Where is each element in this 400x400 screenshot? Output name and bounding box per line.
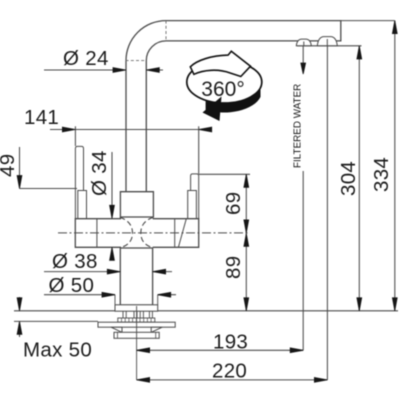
wire extension pipe top to 334 bbox=[341, 20, 395, 22]
ext 69 top bbox=[199, 173, 250, 175]
rotation white arrow bbox=[190, 51, 250, 76]
base column bbox=[120, 248, 152, 305]
counter bottom line left bbox=[14, 320, 98, 322]
arrow D38 left bbox=[107, 269, 120, 274]
arrow 69 up bbox=[244, 174, 249, 187]
base plate bbox=[115, 305, 158, 311]
left valve divider bbox=[96, 219, 98, 248]
rotation arrowhead black bbox=[203, 97, 222, 122]
flange wedge right bbox=[151, 327, 162, 332]
wire extension main outlet center bbox=[326, 46, 328, 380]
svg-text:220: 220 bbox=[212, 360, 247, 383]
rotation band black bbox=[206, 87, 261, 112]
360 symbol bbox=[187, 51, 262, 121]
wire extension filtered outlet lower bbox=[302, 171, 304, 350]
ext 141 right bbox=[198, 126, 200, 174]
dim line D34 vertical bbox=[111, 152, 113, 218]
dim line D38 bbox=[44, 271, 120, 273]
right lever bar bbox=[191, 174, 199, 219]
dim line 69 bbox=[245, 174, 247, 233]
valve centerline bbox=[58, 232, 250, 234]
left valve body bbox=[75, 219, 121, 248]
arrow Max50 up bbox=[17, 321, 22, 334]
arrow D50 left bbox=[102, 292, 115, 297]
arrow D34 down bbox=[110, 205, 115, 218]
Y body box bbox=[120, 192, 153, 217]
svg-text:334: 334 bbox=[370, 157, 393, 192]
dim line Max50 bottom bbox=[19, 321, 21, 337]
svg-text:193: 193 bbox=[213, 331, 248, 354]
right valve body bbox=[153, 219, 199, 248]
wire extension outlet bottom horizontal bbox=[297, 45, 362, 47]
waist curve right (dashed) bbox=[141, 217, 153, 248]
right lever collar bbox=[188, 191, 197, 219]
svg-text:49: 49 bbox=[0, 154, 19, 177]
ext 141 left bbox=[74, 126, 76, 146]
arrow 220 right bbox=[314, 378, 327, 383]
faucet centerline extension bbox=[136, 306, 138, 380]
svg-text:FILTERED WATER: FILTERED WATER bbox=[293, 84, 304, 168]
filtered outlet bbox=[296, 39, 311, 46]
rotation top rim ellipse bbox=[187, 61, 262, 103]
arrow 89 up bbox=[244, 233, 249, 246]
main outlet bbox=[317, 37, 337, 46]
svg-text:360°: 360° bbox=[201, 78, 244, 101]
right valve diagonal bbox=[178, 219, 186, 248]
arrow D24 right bbox=[146, 68, 159, 73]
counter top line left bbox=[14, 310, 115, 312]
svg-text:Max 50: Max 50 bbox=[23, 339, 92, 362]
dim line 220 bbox=[137, 379, 328, 381]
arrow 334 up bbox=[392, 21, 397, 34]
spout tube bbox=[126, 21, 341, 192]
arrow 304 down bbox=[357, 298, 362, 311]
svg-text:Ø 34: Ø 34 bbox=[88, 150, 111, 196]
dim line 304 bbox=[358, 46, 360, 311]
svg-text:141: 141 bbox=[24, 106, 59, 129]
dim line 141 bbox=[50, 129, 212, 131]
svg-text:Ø 50: Ø 50 bbox=[49, 274, 95, 297]
arrow 193 left bbox=[137, 348, 150, 353]
arrow 49 down bbox=[17, 176, 22, 189]
arrow 141 right bbox=[199, 127, 212, 132]
shank tubes bbox=[123, 311, 152, 318]
arrow 220 left bbox=[137, 378, 150, 383]
counter top line right bbox=[158, 310, 399, 312]
arrow D34 up bbox=[110, 247, 115, 260]
svg-text:89: 89 bbox=[222, 256, 245, 279]
flange wedge left bbox=[111, 327, 122, 332]
plate extension tick left bbox=[114, 295, 116, 305]
dim line 334 bbox=[394, 21, 396, 311]
arrow 334 down bbox=[392, 298, 397, 311]
dim line Max50 top bbox=[19, 297, 21, 311]
left lever bar bbox=[75, 146, 83, 218]
arrow Max50 down bbox=[17, 298, 22, 311]
waist curve left (dashed) bbox=[120, 217, 133, 248]
arrow 89 down bbox=[244, 298, 249, 311]
right valve divider bbox=[174, 219, 176, 248]
svg-text:69: 69 bbox=[222, 192, 245, 215]
dim line 89 bbox=[245, 233, 247, 310]
arrow D24 left bbox=[113, 68, 126, 73]
arrow D50 right bbox=[158, 292, 171, 297]
locknut bbox=[114, 332, 159, 338]
dim line 193 bbox=[137, 349, 304, 351]
arrow 69 down bbox=[244, 220, 249, 233]
ext 49 bottom bbox=[20, 188, 78, 190]
left lever collar bbox=[78, 191, 87, 219]
arrow 141 left bbox=[62, 127, 75, 132]
arrow 193 right bbox=[290, 348, 303, 353]
svg-text:304: 304 bbox=[337, 161, 360, 196]
plate extension tick right bbox=[157, 295, 159, 305]
svg-text:Ø 38: Ø 38 bbox=[52, 250, 98, 273]
dim line D24 bbox=[44, 69, 126, 71]
mounting flange bbox=[98, 322, 175, 327]
bend tangent dashes bbox=[126, 21, 166, 61]
dim line D50 bbox=[44, 294, 115, 296]
arrow 304 up bbox=[357, 46, 362, 59]
wire extension filtered outlet upper bbox=[302, 46, 304, 72]
svg-text:Ø 24: Ø 24 bbox=[63, 47, 109, 70]
arrow D38 right bbox=[153, 269, 166, 274]
arrow filtered-water down bbox=[301, 63, 306, 74]
washer bbox=[118, 318, 155, 322]
dim line 49 bbox=[19, 147, 21, 187]
